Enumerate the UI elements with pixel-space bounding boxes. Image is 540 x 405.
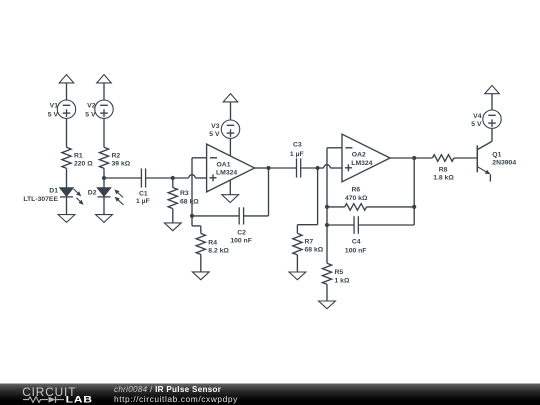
wire C4 left lead [327,224,354,226]
ground below R3 [164,223,181,231]
wire V2 flag to V2 top [103,83,105,100]
wire C4 right lead [358,224,414,226]
D1 emission arrow 2 [76,198,83,205]
ground below R5 [319,301,336,309]
ground below D1 [58,215,75,223]
op-amp OA1 LM324 [207,144,255,192]
wire R7 bottom to ground [296,255,298,272]
wire node A toward OA2 [318,167,324,169]
resistor R1 220 ohm [62,147,93,168]
wire OA1 out down [268,168,270,216]
CircuitLab logo squiggle [23,396,64,402]
ground below OA1 [222,195,239,203]
power flag for V1 [59,75,74,83]
wire C2 left to feedback node [192,215,239,217]
wire output column down [413,158,415,225]
wire OA2 minus input [327,147,342,149]
D1 emission arrow 1 [74,189,82,196]
wire C1 to R3 node [146,177,173,179]
Q1 emitter lead [477,167,490,182]
resistor R5 1 kohm [322,263,350,284]
capacitor C4 100 nF [345,216,367,254]
wire V1 bottom to R1 top [66,118,68,147]
junction node R6 right [412,205,416,209]
wire down to C2 right [244,215,269,217]
resistor R7 68 kohm [293,233,324,255]
wire R3 bottom to ground [172,209,174,223]
wire node to R3 top [172,178,174,188]
ground below R7 [289,272,306,280]
photodiode D2 [88,188,111,197]
resistor R6 470 kohm [345,187,368,211]
svg-text:http://circuitlab.com/cxwpdpy: http://circuitlab.com/cxwpdpy [114,394,238,404]
junction node OA1 out [266,166,270,170]
resistor R3 68 kohm [168,188,199,209]
wire D1 cathode to ground [66,197,68,214]
wire R2 bottom to node [103,168,105,178]
D2 incident arrow 2 [115,197,124,205]
wire feedback node down [191,216,193,226]
wire OA1 output [254,167,268,169]
wire R4 top lead [200,226,202,234]
ground below R4 [192,272,209,280]
wire R8 to Q1 base [454,157,477,159]
wire D2 cathode to ground [103,197,105,214]
wire OA1 feedback vertical [191,158,193,216]
wire OA1 out to C3 [269,167,297,169]
resistor R2 39 kohm [99,147,130,168]
svg-text:LAB: LAB [66,395,93,405]
wire OA2 feedback vertical [326,148,328,263]
junction node OA2 out [412,156,416,160]
capacitor C2 100 nF [230,207,252,244]
resistor R8 1.8 kohm [432,155,454,182]
wire hop to OA2 plus input [330,167,342,169]
wire hop over OA2 feedback [324,165,331,168]
power flag for V2 [97,75,112,83]
wire jog to R7 [297,224,317,226]
junction node A C3/R7/OA2+ [316,166,320,170]
ground below D2 [96,215,113,223]
Q1 collector lead [477,128,492,149]
wire OA1 V+ stub [229,138,231,156]
Q1 labels [492,151,516,166]
resistor R4 8.2 kohm [196,233,229,254]
voltage source V2 5 V [85,100,113,118]
wire R3 node toward OA1 [173,177,189,179]
wire V1 flag to V1 top [66,83,68,100]
voltage source V3 5 V [209,120,239,138]
power flag for V3 [223,94,238,102]
wire R5 bottom to ground [326,284,328,301]
wire OA2 output [390,157,414,159]
footer background [0,384,540,405]
junction node R2/D2/C1 [102,176,106,180]
wire R4 bottom to ground [200,254,202,272]
capacitor C3 1 uF [290,142,304,178]
D2 incident arrow 1 [114,189,123,197]
wire node A down [317,168,319,225]
wire R6 left lead [327,206,345,208]
wire V3 top to flag [230,102,232,120]
op-amp OA2 LM324 [342,134,390,182]
wire R7 top lead [296,225,298,234]
wire hop to OA1 plus input [195,177,206,179]
junction node OA1 feedback [190,214,194,218]
wire out to R8 [414,157,432,159]
wire V2 bottom to R2 top [103,118,105,147]
wire node to D2 anode [103,178,105,188]
wire V4 top to flag [491,94,493,110]
wire OA1 minus input [192,157,207,159]
junction node R6 left [325,205,329,209]
voltage source V4 5 V [471,110,501,128]
LED D1 LTL-307EE [23,187,73,203]
power flag for V4 [485,85,500,93]
junction node C1/R3/OA1+ [171,176,175,180]
wire R6 right lead [367,206,415,208]
capacitor C1 1 uF [136,168,150,205]
wire C3 to node A [301,167,318,169]
wire R1 bottom to D1 anode [66,168,68,187]
wire jog to R4 [192,225,201,227]
voltage source V1 5 V [48,100,76,118]
svg-text:chri0084 / IR Pulse Sensor: chri0084 / IR Pulse Sensor [114,385,222,394]
wire node to C1 [104,177,141,179]
wire OA1 V- stub [229,180,231,195]
wire hop over OA1 feedback [189,175,196,178]
junction node C4 left [325,223,329,227]
transistor Q1 2N3904 base bar [476,145,478,172]
